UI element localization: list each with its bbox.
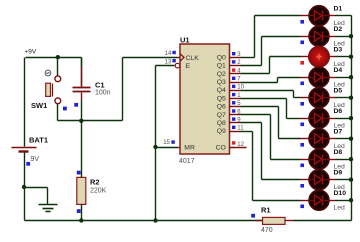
- svg-text:11: 11: [237, 126, 244, 132]
- svg-text:15: 15: [163, 140, 170, 146]
- svg-text:U1: U1: [180, 36, 190, 45]
- svg-text:Q1: Q1: [217, 63, 226, 70]
- svg-text:9V: 9V: [31, 156, 40, 163]
- svg-text:12: 12: [237, 142, 244, 148]
- svg-text:R2: R2: [90, 178, 100, 187]
- svg-text:CO: CO: [216, 145, 226, 152]
- svg-text:+9V: +9V: [25, 49, 37, 56]
- svg-text:D8: D8: [334, 149, 343, 156]
- svg-text:4017: 4017: [179, 158, 195, 165]
- svg-text:SW1: SW1: [31, 101, 47, 110]
- svg-text:Q0: Q0: [217, 55, 226, 62]
- svg-text:470: 470: [261, 227, 273, 234]
- svg-text:100n: 100n: [95, 90, 111, 97]
- svg-text:Q7: Q7: [217, 112, 226, 119]
- svg-text:D3: D3: [334, 47, 343, 54]
- svg-text:BAT1: BAT1: [29, 136, 48, 145]
- svg-text:14: 14: [165, 51, 172, 57]
- svg-text:D6: D6: [334, 108, 343, 115]
- svg-text:C1: C1: [95, 81, 105, 90]
- svg-text:Q4: Q4: [217, 87, 226, 94]
- svg-text:R1: R1: [261, 206, 271, 215]
- svg-text:E: E: [186, 63, 191, 70]
- svg-text:D5: D5: [334, 88, 343, 95]
- svg-text:Q3: Q3: [217, 79, 226, 86]
- svg-text:D1: D1: [334, 6, 343, 13]
- svg-text:Led: Led: [334, 205, 346, 212]
- svg-text:D10: D10: [334, 190, 347, 197]
- svg-text:Q8: Q8: [217, 120, 226, 127]
- svg-text:D2: D2: [334, 26, 343, 33]
- svg-text:Q2: Q2: [217, 71, 226, 78]
- svg-text:D9: D9: [334, 170, 343, 177]
- svg-text:Q9: Q9: [217, 128, 226, 135]
- svg-text:MR: MR: [184, 145, 195, 152]
- svg-text:10: 10: [237, 85, 244, 91]
- svg-text:220K: 220K: [90, 188, 107, 195]
- svg-text:D7: D7: [334, 129, 343, 136]
- svg-text:D4: D4: [334, 67, 343, 74]
- svg-text:13: 13: [165, 59, 172, 65]
- svg-text:Q6: Q6: [217, 104, 226, 111]
- svg-text:Q5: Q5: [217, 95, 226, 102]
- svg-text:CLK: CLK: [186, 55, 200, 62]
